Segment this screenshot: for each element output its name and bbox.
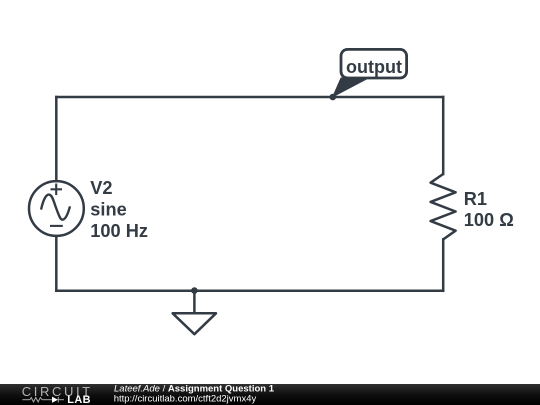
wire left upper (top-left corner to V2 + terminal) xyxy=(55,97,58,181)
svg-text:LAB: LAB xyxy=(67,394,91,405)
node output flag box xyxy=(341,49,407,78)
V2 sine waveform mark xyxy=(41,195,69,220)
CircuitLab logo diode arrow xyxy=(52,397,58,403)
node output flag tail xyxy=(333,78,369,97)
svg-text:sine: sine xyxy=(90,200,126,220)
V2 minus polarity mark xyxy=(50,225,63,227)
resistor R1 zigzag xyxy=(431,174,456,239)
wire top (V2 top to R1 top, through node output) xyxy=(56,96,443,99)
svg-text:http://circuitlab.com/ctft2d2j: http://circuitlab.com/ctft2d2jvmx4y xyxy=(114,394,257,405)
footer bar xyxy=(0,384,540,405)
wire right lower (R1 pin 2 to bottom-right corner) xyxy=(442,239,445,290)
V2 plus polarity mark xyxy=(51,184,63,196)
ground junction dot xyxy=(191,287,198,294)
svg-text:output: output xyxy=(346,57,402,77)
svg-text:100 Ω: 100 Ω xyxy=(464,210,514,230)
svg-text:V2: V2 xyxy=(90,178,112,198)
voltage source V2 body circle xyxy=(29,181,84,236)
wire right upper (top-right corner to R1 pin 1) xyxy=(442,97,445,174)
CircuitLab logo wire with resistor squiggle xyxy=(22,397,64,403)
wire bottom (V2 bottom to R1 bottom, through ground junction) xyxy=(56,290,443,293)
ground stub wire xyxy=(193,291,196,313)
svg-text:100 Hz: 100 Hz xyxy=(90,221,148,241)
wire left lower (V2 - terminal to bottom-left corner) xyxy=(55,236,58,291)
node output junction dot xyxy=(330,94,337,101)
ground symbol triangle xyxy=(173,313,216,334)
svg-text:R1: R1 xyxy=(464,189,487,209)
